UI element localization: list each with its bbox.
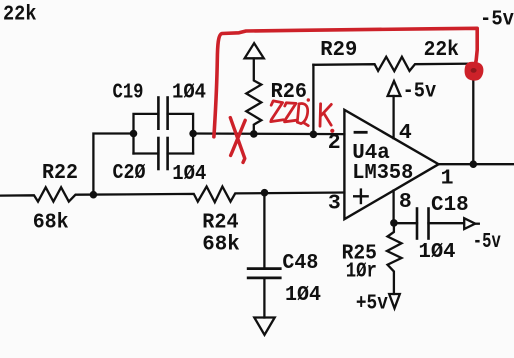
red handwritten 2 (first) [271,101,284,122]
wire pin 8 stub [392,191,394,224]
resistor R26 vertical with zigzag [246,59,261,134]
wire feedback right leg down to output [472,64,474,165]
svg-text:R22: R22 [42,161,78,185]
svg-text:-5v: -5v [403,80,437,104]
red X cross-out stroke 1 [230,118,245,163]
svg-text:1Ø4: 1Ø4 [172,162,206,186]
svg-text:R24: R24 [202,211,238,235]
capacitor C48 wires [263,193,265,268]
svg-text:68k: 68k [33,211,69,235]
red handwritten 2 (second) [285,103,297,122]
wire vertical feedback left leg [312,65,314,135]
red X cross-out stroke 2 [231,120,246,155]
capacitor C18 plates [416,209,419,239]
junction dots [90,130,478,227]
wire node line to op-amp pin 2 [193,132,344,135]
op-amp plus input symbol [354,195,367,197]
svg-text:1Ø4: 1Ø4 [285,283,321,307]
red annotation overlay [214,28,477,162]
supply arrow -5v at pin 4 [388,81,401,96]
svg-text:68k: 68k [202,233,240,257]
resistor R25 vertical with zigzag [387,223,402,294]
ground symbol below C48 [254,318,274,335]
wire main input line with resistors R22 R24 [0,187,344,203]
capacitor C18 wires [394,222,417,224]
red handwritten 0 [297,103,308,125]
svg-text:1Ø4: 1Ø4 [172,80,206,104]
resistor R29 with zigzag [313,57,473,71]
wire output from op-amp [439,163,514,165]
supply arrow -5v right of C18 [464,218,475,229]
svg-text:C19: C19 [113,80,144,104]
red annotation wire from node to feedback [214,28,477,137]
red dot above 0 [307,98,310,101]
supply arrow above R26 [245,43,264,58]
svg-text:-5v: -5v [480,8,514,32]
op-amp U1 triangle [344,110,438,219]
svg-text:1: 1 [441,167,454,191]
svg-text:8: 8 [399,190,412,214]
svg-text:-5v: -5v [473,230,501,254]
red dot below K [330,129,334,133]
svg-text:2: 2 [328,131,341,155]
svg-text:1Ør: 1Ør [346,259,377,283]
svg-text:C48: C48 [282,251,318,275]
capacitor C20 plates [157,138,160,169]
wire vertical from R22 node up to cap network [93,134,133,195]
red handwritten K [320,104,331,126]
svg-text:22k: 22k [3,2,37,26]
red blob at feedback junction [465,62,484,81]
supply arrow +5v below R25 [389,294,400,308]
svg-text:C2Ø: C2Ø [113,161,146,185]
wire pin 4 stub [392,96,394,138]
svg-text:4: 4 [399,121,412,145]
svg-text:+5v: +5v [356,291,388,315]
svg-text:22k: 22k [424,38,459,62]
svg-text:R29: R29 [320,38,357,62]
svg-text:3: 3 [328,191,341,215]
capacitor C19 C20 parallel network frame [134,114,159,154]
capacitor C48 plates [248,267,280,270]
svg-text:C18: C18 [431,193,469,217]
capacitor C19 plates [157,98,160,129]
svg-text:LM358: LM358 [352,161,413,185]
op-amp minus input symbol [355,131,366,134]
svg-text:1Ø4: 1Ø4 [419,240,456,264]
